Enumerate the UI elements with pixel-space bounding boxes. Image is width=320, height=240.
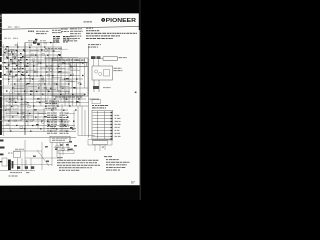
section heading 1-2 (28, 31, 34, 32)
heading text block mid (52, 30, 62, 33)
amplifier stage block 7 (60, 80, 72, 88)
resistor RL8 (12, 77, 14, 78)
resistor R18 (9, 71, 12, 72)
wire stub 6 (12, 68, 22, 70)
wire v13 (57, 55, 59, 91)
capacitor C52 (70, 127, 73, 128)
ps value label (103, 86, 111, 89)
ac cord label (10, 171, 29, 174)
wire fine h4 (2, 85, 64, 87)
wire h7 (6, 71, 68, 73)
resistor R46 (44, 116, 47, 117)
wire stub 28 (54, 119, 63, 121)
svg-text:PIONEER: PIONEER (106, 18, 137, 24)
wire h9 (2, 78, 83, 80)
wire cluster h (54, 146, 70, 148)
resistor RL1 (5, 52, 7, 53)
amplifier stage block 9 (34, 90, 48, 99)
transistor Q1 (15, 51, 18, 54)
wire stub 26 (24, 115, 33, 117)
power block label (114, 68, 123, 71)
wire v11 (48, 47, 50, 85)
wire relay drop 1 (93, 59, 95, 66)
upper-left dense cluster knots (4, 50, 28, 76)
wire v1 (8, 47, 10, 85)
rectifier D201 (95, 70, 98, 73)
right edge wide notch top (139, 0, 141, 30)
connector pin labels (115, 115, 121, 137)
resistor RL7 (5, 74, 7, 75)
wire h15 (2, 105, 88, 107)
wire fine h1 (6, 57, 78, 59)
parts list table rows (47, 113, 69, 134)
parts note column (70, 28, 83, 41)
connector header text (92, 105, 108, 108)
capacitor C32 (44, 87, 47, 88)
wire mesh fill a (20, 111, 46, 113)
resistor R31 (30, 91, 33, 92)
pre-rule tiny text (8, 26, 20, 29)
wire stub 17 (28, 86, 37, 88)
notes paragraph top right (86, 28, 137, 39)
IC U1 inner cells (6, 98, 18, 115)
wire v21 (43, 108, 45, 132)
transistor Q4 (60, 57, 63, 60)
left margin strip text gaps (0, 18, 1, 48)
right edge small mark (135, 92, 137, 94)
resistor R33 (58, 91, 61, 92)
svg-text:67: 67 (131, 180, 135, 184)
wire fine h3 (8, 81, 78, 83)
capacitor C31 (46, 161, 49, 163)
wire v12 (52, 42, 54, 121)
wire stub 19 (60, 86, 69, 88)
wire v23 (61, 104, 63, 131)
wire unit header line (52, 62, 88, 64)
resistor RL2 (11, 50, 13, 51)
capacitor C30 (17, 62, 20, 63)
capacitor C20 (35, 71, 38, 72)
amplifier stage block 8 (14, 86, 27, 94)
wire ladder feed (78, 135, 95, 137)
wire v17 (72, 58, 74, 106)
wire h14 (8, 102, 80, 104)
wire v14 (60, 47, 62, 102)
capacitor C50 (52, 127, 55, 128)
wire stub 8 (40, 67, 50, 69)
protection relay top box (92, 100, 101, 104)
capacitor C201 (93, 86, 99, 89)
wire v8 (36, 47, 38, 77)
transistor Q3 (32, 59, 35, 62)
dark symbol cluster top (33, 39, 40, 45)
wire stub 15 (66, 81, 75, 83)
wire v22 (9, 94, 11, 131)
resistor R48 (20, 127, 23, 128)
resistor R26 (41, 78, 44, 79)
resistor R13 (26, 66, 29, 67)
resistor R6 (8, 54, 11, 55)
transistor Q10 (28, 105, 31, 108)
wire mesh fill b (22, 119, 46, 121)
wire v2 (12, 55, 14, 105)
wire stub 4 (52, 51, 60, 53)
wire v0 (2, 44, 4, 136)
resistor R21 (47, 75, 50, 76)
wire cluster v2 (62, 143, 64, 156)
page background (0, 0, 141, 200)
ps bottom label (90, 98, 99, 101)
resistor R31 (45, 146, 48, 148)
voltage table block B (63, 36, 70, 42)
wire bus lower b (0, 130, 76, 132)
capacitor C5 (44, 43, 47, 44)
wire h2 (6, 50, 54, 52)
wire bottom h3 (10, 164, 52, 166)
resistor R41 (8, 109, 11, 110)
resistor RL6 (16, 64, 18, 65)
transformer frame box (2, 158, 7, 166)
wire bottom link (69, 138, 71, 141)
diode D44 (30, 120, 33, 121)
resistor R51 (62, 124, 65, 125)
wire h8 (2, 75, 80, 77)
wire stub 12 (24, 78, 34, 80)
wire stub 2 (30, 50, 39, 52)
diode D9 (42, 54, 45, 55)
margin fold mark white text (0, 15, 1, 17)
IC block U1 outline (4, 96, 22, 120)
wire v5 (24, 42, 26, 135)
wire h4 (10, 59, 68, 61)
capacitor C32 (68, 149, 71, 150)
switch label text (119, 56, 128, 59)
capacitor C15 (50, 66, 53, 67)
capacitor C45 (14, 120, 17, 121)
capacitor C22 (59, 71, 62, 72)
power transformer T31 secondary bar (12, 161, 14, 169)
wire ps drop 1 (93, 80, 95, 92)
wire v9 (40, 42, 42, 106)
wire v19 (79, 58, 81, 106)
wire h20 (0, 125, 75, 127)
wire h10 (10, 83, 68, 85)
wire h13 (2, 98, 86, 100)
left margin lower strip gaps (0, 96, 1, 121)
fuse box F1 (14, 152, 21, 158)
model number text K.A.-773 (84, 21, 93, 22)
amplifier stage block 3 (46, 58, 59, 66)
diode D19 (22, 75, 25, 76)
power transformer T31 core bar (8, 160, 11, 171)
wire fine h2 (4, 68, 78, 70)
wire bus lower a (0, 128, 76, 130)
transistor Q31 (56, 145, 59, 148)
regulator box (58, 150, 74, 153)
wire stub 25 (10, 111, 19, 113)
diode D4 (34, 42, 37, 43)
transistor Q2 (45, 49, 48, 52)
wire mesh fill d (37, 112, 39, 129)
wire ps to main (89, 98, 100, 100)
capacitor C17 (74, 65, 77, 66)
diode D49 (36, 124, 39, 125)
wire cluster v1 (56, 143, 58, 158)
wire diagonal (37, 150, 49, 166)
connector CN1 right pads (111, 112, 113, 140)
diode D31 (66, 144, 69, 146)
wire h18 (2, 116, 62, 118)
resistor RL3 (6, 57, 8, 58)
amp section title row (45, 48, 62, 49)
capacitor C40 (76, 101, 79, 102)
wire stub 16 (14, 88, 24, 90)
power transformer label box (50, 136, 70, 142)
wire stub 18 (46, 89, 56, 91)
wire drop a (77, 106, 79, 136)
right page edge line (140, 0, 141, 200)
amplifier stage block 5 (58, 64, 71, 73)
amplifier stage block 1 (4, 50, 17, 59)
wire relay drop 2 (98, 59, 100, 66)
wire h1 (2, 46, 62, 48)
relay block K1 lower (97, 56, 101, 59)
relay lower box (93, 141, 108, 145)
connector CN1 pin lines (93, 111, 112, 139)
amplifier stage block 10 (52, 94, 64, 102)
resistor R8 (31, 54, 34, 55)
wire link mid (76, 102, 89, 104)
diode D29 (78, 83, 81, 84)
resistor RL4 (14, 55, 16, 56)
resistor R43 (34, 109, 37, 110)
speaker cluster components (69, 141, 77, 150)
wire stub 11 (8, 76, 17, 78)
legend text rows (61, 29, 69, 32)
footnote paragraph left (57, 157, 100, 171)
ac drop wires (18, 158, 32, 171)
wire h5 (2, 62, 84, 64)
bottom black border band (0, 185, 141, 200)
wire bottom v3 (51, 142, 53, 166)
solder junction dots (5, 42, 86, 132)
note mark (102, 147, 104, 148)
resistor R34 (60, 144, 63, 145)
left block labels (28, 39, 46, 42)
power amp unit outline (52, 58, 88, 96)
capacitor C2 (15, 44, 18, 45)
left margin mid text dashes (0, 57, 2, 86)
wire bottom v4 (59, 142, 61, 160)
notes list right (104, 156, 130, 170)
wire h17 (6, 113, 46, 115)
wire stub 1 (18, 56, 30, 58)
resistor R32 (33, 156, 36, 158)
resistor R28 (66, 78, 69, 79)
wire drop c (84, 110, 86, 136)
left margin vertical title strip (0, 14, 2, 57)
wire stub 23 (50, 103, 59, 105)
wire v3 (17, 42, 19, 100)
wire ps drop 2 (98, 80, 100, 92)
wire v16 (68, 58, 70, 106)
power switch S1 box (103, 57, 118, 60)
wire stub 10 (70, 70, 80, 72)
capacitor C25 (27, 83, 30, 84)
resistor RL9 (17, 80, 19, 81)
wire h21 (0, 137, 76, 139)
wire h3 (2, 54, 60, 56)
wire fine h0 (4, 48, 68, 50)
terminal strip TB2 (25, 166, 28, 169)
signal label row (4, 37, 18, 40)
wire bus supply a (0, 93, 85, 95)
diode D39 (64, 98, 67, 99)
wire h11 (2, 87, 88, 89)
wire stub 20 (6, 100, 16, 102)
voltage table block A (53, 36, 60, 42)
resistor R11 (70, 66, 73, 67)
transistor Q5 (18, 67, 21, 70)
wire bottom h1 (13, 150, 42, 152)
wire v18 (76, 63, 78, 106)
top black border band (0, 0, 141, 14)
relay block K1 upper (91, 56, 96, 59)
wire main vertical trunk (24, 43, 26, 135)
unit header text (54, 60, 85, 61)
wire bottom v2 (41, 142, 43, 170)
transistor Q6 (50, 69, 53, 72)
wire drop b (81, 106, 83, 136)
capacitor C37 (37, 98, 40, 99)
wire h6 (2, 66, 88, 68)
terminal strip TB3 (31, 166, 34, 169)
diode D34 (73, 87, 76, 88)
resistor R36 (24, 102, 27, 103)
wire v4 (20, 63, 22, 121)
resistor R3 (29, 44, 32, 45)
resistor RL5 (10, 61, 12, 62)
capacitor C10 (58, 54, 61, 55)
diode D14 (38, 62, 41, 63)
wire h0 (25, 42, 60, 44)
transistor Q7 (38, 84, 41, 87)
resistor R1 (6, 46, 9, 47)
wire mesh fill c (27, 110, 29, 126)
capacitor C12 (12, 62, 15, 63)
capacitor C27 (54, 83, 57, 84)
wire v6 (29, 47, 31, 82)
transistor Q9 (66, 91, 69, 94)
heading text block left (36, 31, 49, 34)
connector CN1 outline (92, 110, 113, 140)
resistor R38 (52, 102, 55, 103)
wire bus supply b (0, 94, 85, 96)
capacitor C7 (20, 57, 23, 58)
fuse label (8, 149, 24, 154)
wire main rail (2, 62, 84, 64)
transistor Q12 (42, 121, 45, 124)
bottom small label (9, 176, 18, 177)
Pioneer logo tuning-fork mark (101, 18, 105, 22)
wire v20 (84, 58, 86, 88)
rectifier D202 (99, 72, 102, 75)
unit bottom text (55, 96, 82, 99)
wire stub 5 (66, 59, 77, 61)
wire stub 0 (5, 53, 15, 55)
wire v15 (64, 60, 66, 106)
wire fine h5 (10, 89, 70, 91)
wire drop d (73, 110, 75, 130)
left margin lower blobs (0, 140, 5, 163)
power section label (88, 44, 101, 47)
wire stub 29 (66, 113, 75, 115)
resistor R16 (62, 62, 65, 63)
capacitor C42 (22, 113, 25, 114)
wire cluster v3 (67, 143, 69, 153)
ac line wire (0, 170, 35, 172)
capacitor C35 (12, 98, 15, 99)
wire stub 24 (64, 101, 74, 103)
label box text (52, 138, 68, 141)
amplifier stage block 6 (30, 76, 43, 84)
wire v10 (45, 55, 47, 102)
wire h16 (2, 109, 68, 111)
amplifier stage block 4 (8, 64, 20, 72)
power supply block outline (92, 66, 113, 80)
wire stub 9 (56, 68, 65, 70)
wire h19 (2, 120, 70, 122)
wire stub 3 (44, 58, 56, 60)
wire stub 13 (38, 80, 47, 82)
diode D24 (13, 57, 16, 58)
wire right bus down (88, 46, 90, 138)
wire stub 27 (38, 113, 47, 115)
resistor R33 (55, 149, 58, 150)
wire bottom h2 (25, 157, 60, 159)
amplifier stage block 2 (24, 56, 38, 65)
left margin lower dark strip (0, 86, 2, 135)
transformer T1 (104, 70, 110, 77)
wire stub 21 (20, 104, 29, 106)
terminal strip TB1 (17, 166, 20, 169)
transistor Q8 (10, 91, 13, 94)
mid parts labels (45, 101, 59, 109)
wire relay to switch (101, 57, 104, 59)
wire v7 (33, 60, 35, 121)
wire right link (68, 62, 89, 64)
resistor R23 (71, 74, 74, 75)
wire stub 22 (36, 101, 46, 103)
speaker terminal cluster (88, 140, 112, 152)
wire h12 (14, 91, 70, 93)
wire stub 7 (26, 70, 35, 72)
upper right tiny labels (68, 36, 75, 41)
header horizontal rule (0, 26, 141, 29)
transistor Q32 (62, 148, 65, 151)
wire stub 14 (52, 77, 62, 79)
capacitor C47 (6, 124, 9, 125)
wire bottom v1 (24, 140, 26, 168)
transistor Q11 (54, 107, 57, 110)
driver stage wide box (70, 62, 87, 66)
